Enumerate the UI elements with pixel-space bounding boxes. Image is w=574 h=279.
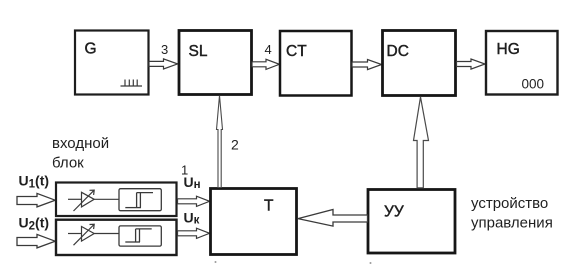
attenuator symbol row1 (74, 190, 95, 211)
thin arrow T to SL (217, 96, 223, 188)
label 3 (161, 42, 168, 57)
arrow CT to DC (352, 60, 382, 70)
svg-text:устройство: устройство (471, 195, 548, 212)
block SL (179, 31, 252, 95)
text входной блок (52, 135, 109, 172)
pulse train symbol inside G (121, 80, 143, 87)
svg-text:управления: управления (471, 215, 553, 232)
svg-text:3: 3 (161, 42, 168, 57)
label 000 inside HG (522, 77, 545, 92)
svg-text:входной: входной (52, 135, 109, 152)
input block lower box (56, 220, 177, 255)
label U2(t) (19, 215, 50, 233)
stray dot under УУ (370, 262, 372, 264)
svg-text:T: T (264, 198, 274, 215)
arrow Uк to T (178, 228, 210, 238)
label 2 (231, 137, 239, 153)
block DC (383, 31, 456, 96)
wire row2 (68, 233, 119, 235)
svg-text:CT: CT (286, 43, 307, 60)
arrow УУ to T (298, 210, 368, 227)
svg-text:4: 4 (265, 42, 272, 57)
input arrow U1 (17, 193, 55, 207)
arrow DC to HG (457, 59, 486, 69)
attenuator symbol row2 (74, 224, 95, 245)
svg-text:SL: SL (189, 43, 208, 60)
label 1 (181, 163, 188, 178)
block CT (280, 31, 352, 96)
label Uн (184, 174, 201, 191)
input arrow U2 (17, 234, 55, 248)
arrow УУ to DC (414, 97, 429, 188)
svg-text:УУ: УУ (384, 204, 404, 221)
arrow SL to CT (252, 59, 279, 69)
wire row1 (68, 198, 119, 200)
svg-text:HG: HG (497, 41, 520, 58)
svg-text:блок: блок (52, 155, 84, 172)
input block upper box (56, 183, 177, 217)
block HG (486, 31, 558, 95)
block T (211, 189, 297, 255)
label 4 (265, 42, 272, 57)
arrow G to SL (149, 59, 178, 69)
schmitt trigger box row1 (119, 189, 161, 211)
svg-text:000: 000 (522, 77, 545, 92)
svg-text:2: 2 (231, 137, 239, 153)
svg-text:DC: DC (387, 43, 409, 60)
text устройство управления (471, 195, 553, 232)
arrow Uн to T (178, 196, 210, 206)
block G (75, 31, 149, 95)
block УУ (368, 190, 455, 254)
label U1(t) (19, 173, 50, 191)
svg-text:G: G (85, 41, 97, 58)
stray dot under T (215, 261, 217, 263)
label Uк (184, 210, 200, 227)
schmitt trigger box row2 (119, 226, 161, 246)
